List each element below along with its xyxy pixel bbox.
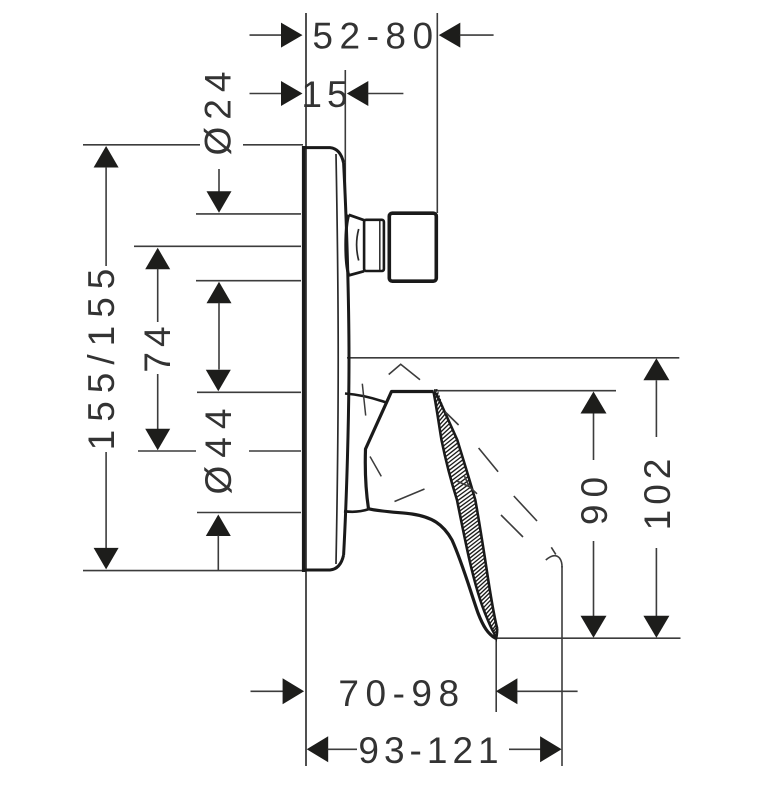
node dashed caret (alt knob top) [389, 364, 420, 379]
node extension line 90-102 bottom [497, 637, 681, 639]
node extension line dia44 bottom [197, 512, 301, 514]
svg-text:102: 102 [637, 454, 678, 531]
handle boss bottom arc [344, 509, 369, 511]
node dimension 52-80 [250, 34, 282, 36]
node dimension dia44 [206, 370, 231, 392]
svg-text:Ø24: Ø24 [198, 65, 239, 156]
node extension line 102 top [347, 357, 679, 359]
node extension line 15 (plate face) [344, 70, 346, 203]
svg-text:74: 74 [137, 321, 178, 372]
node dimension 15 [250, 93, 282, 95]
node axis line 74 bottom [138, 450, 301, 452]
node dashed segment B [479, 448, 499, 472]
node dashed segment through knob 2 [395, 489, 425, 502]
node extension line dia24 bottom [196, 280, 301, 282]
handle lever bottom edge [369, 509, 497, 639]
spout stub cone [346, 215, 349, 276]
handle lever body [365, 392, 433, 509]
node dimension 102 [643, 358, 669, 380]
escutcheon plate [302, 146, 306, 572]
node extension line 155 top [83, 144, 303, 146]
node extension line dashed tip [561, 566, 563, 766]
node stub neck arc [357, 229, 359, 261]
node extension line 52-80 right [436, 13, 438, 213]
handle tip cap [494, 629, 498, 639]
node dimension dia24 [218, 169, 220, 192]
node dashed segment through knob 1 [370, 457, 381, 477]
node plate inner contour [336, 154, 338, 564]
svg-text:Ø44: Ø44 [198, 401, 239, 495]
node extension line 90 top [435, 390, 617, 392]
spout stub ring [364, 220, 384, 271]
svg-text:70-98: 70-98 [338, 673, 465, 714]
node extension line dia24 top [196, 213, 301, 215]
node dimension 155/155 [94, 146, 119, 168]
node dashed arrow mark [456, 476, 477, 494]
node extension line 155 bottom [83, 570, 303, 572]
node extension line dia44 top [197, 391, 301, 393]
node boss tick [362, 384, 365, 416]
node dimension 93-121 [307, 736, 329, 762]
node dashed segment D [514, 496, 537, 521]
spout stub block [389, 213, 436, 281]
svg-text:52-80: 52-80 [312, 16, 439, 57]
handle boss top arc [345, 394, 386, 403]
node dimension 70-98 [251, 690, 284, 692]
node extension line 74 top [134, 245, 301, 247]
wire wall line [305, 13, 307, 766]
node dimension 90 [581, 392, 607, 414]
node dashed segment A [445, 412, 458, 425]
svg-text:155/155: 155/155 [81, 261, 122, 451]
svg-text:15: 15 [301, 74, 352, 115]
node dimension 74 [145, 248, 170, 269]
node dashed segment C [501, 515, 523, 537]
node dashed tip hook [546, 547, 562, 567]
svg-text:90: 90 [574, 470, 615, 525]
svg-text:93-121: 93-121 [358, 730, 503, 771]
node extension line lever tip [495, 640, 497, 712]
